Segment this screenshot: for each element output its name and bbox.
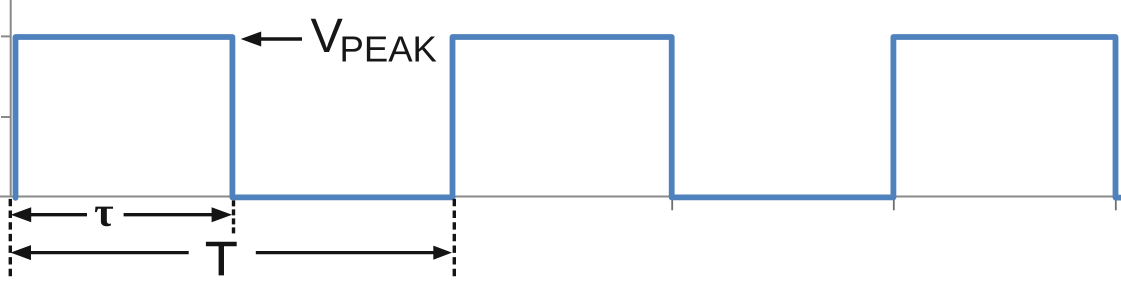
horizontal axis (baseline) <box>0 195 1121 197</box>
svg-text:PEAK: PEAK <box>340 29 437 70</box>
square wave trace <box>16 37 1121 198</box>
tau arrow left line <box>30 213 88 216</box>
label tau <box>95 207 113 227</box>
T arrow left line <box>30 251 189 254</box>
T arrow right head <box>433 246 452 260</box>
axis tick y=mid <box>1 116 11 118</box>
Vpeak arrow line <box>259 37 302 41</box>
vertical axis <box>10 0 12 198</box>
axis tick y=Vpeak <box>1 35 11 37</box>
T arrow right line <box>256 251 435 254</box>
tau arrow right head <box>212 207 233 222</box>
tau arrow right line <box>124 213 213 216</box>
baseline tick x=894 <box>893 197 895 210</box>
dashed marker x=tau <box>232 200 235 233</box>
T arrow left head <box>11 245 32 260</box>
dashed marker x=0 <box>9 199 12 277</box>
tau arrow left head <box>11 207 32 222</box>
baseline tick x=1116 <box>1115 197 1117 210</box>
baseline tick x=672 <box>671 197 673 210</box>
label T <box>206 242 237 276</box>
Vpeak arrowhead <box>241 32 262 47</box>
dashed marker x=T <box>453 199 456 277</box>
